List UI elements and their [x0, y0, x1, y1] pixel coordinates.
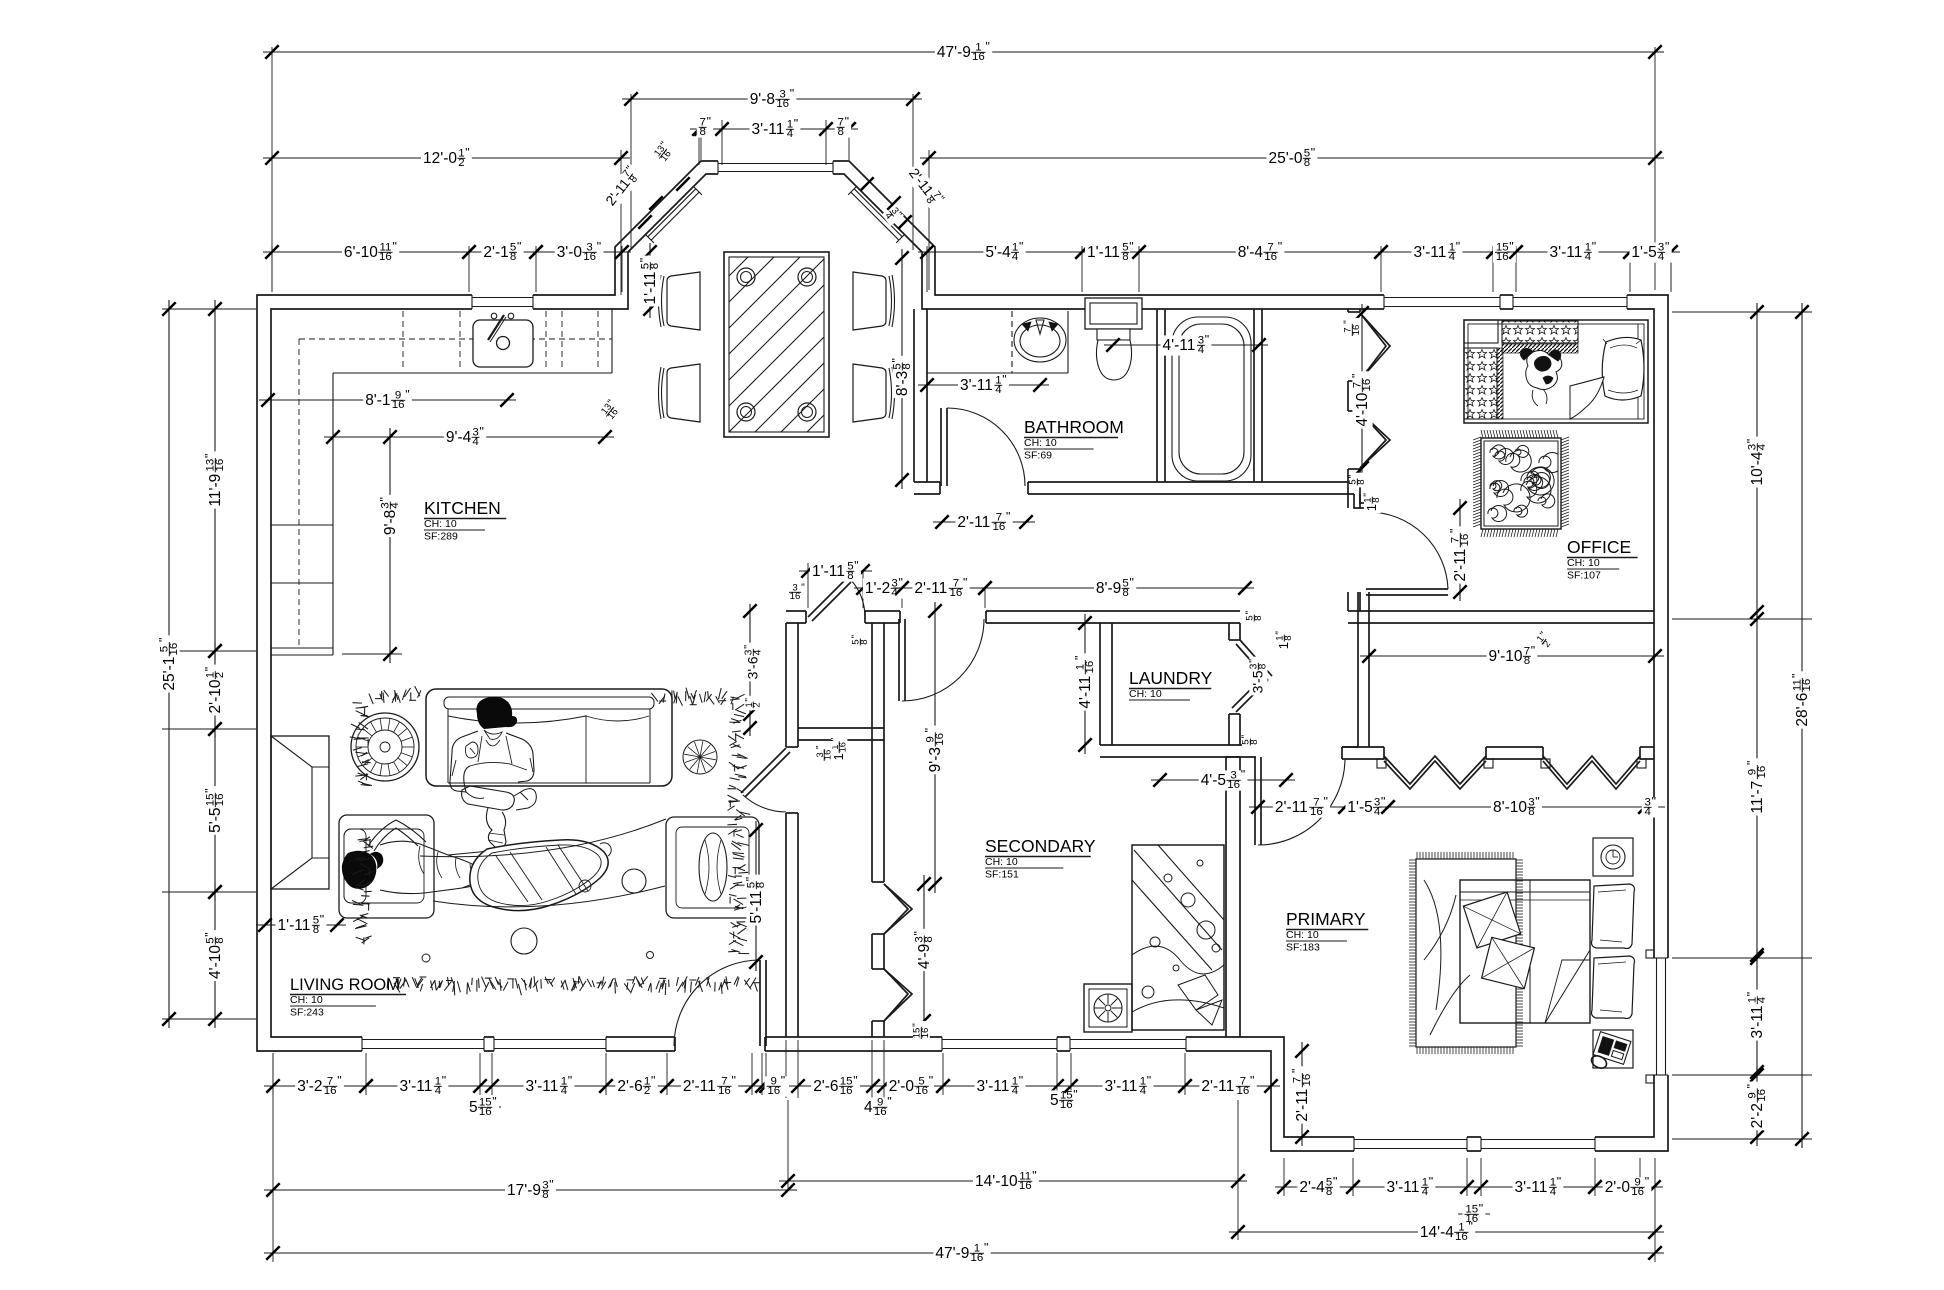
dimension 17'-9 3/8 bottom	[264, 1178, 797, 1202]
svg-text:CH: 10: CH: 10	[1024, 437, 1057, 449]
svg-text:": "	[1333, 1175, 1337, 1189]
svg-text:8: 8	[1524, 655, 1530, 667]
svg-text:16: 16	[479, 1106, 492, 1118]
window bay east diagonal	[848, 186, 905, 243]
exterior wall outer outline	[257, 161, 1668, 1151]
svg-text:": "	[1275, 631, 1286, 635]
svg-text:BATHROOM: BATHROOM	[1024, 417, 1124, 437]
svg-text:16: 16	[934, 733, 946, 746]
living room hall door swing arc	[743, 795, 786, 812]
svg-text:4: 4	[1550, 1186, 1557, 1198]
svg-text:8: 8	[838, 126, 844, 138]
svg-text:5: 5	[1050, 1092, 1059, 1109]
svg-text:": "	[1002, 372, 1006, 386]
dimension 25'-0 5/8	[920, 145, 1664, 169]
svg-text:8'-10: 8'-10	[1493, 799, 1527, 816]
svg-text:16: 16	[1084, 661, 1096, 674]
svg-text:CH: 10: CH: 10	[1129, 688, 1162, 700]
dimension 3'-11 1/4 top b	[1507, 239, 1639, 263]
svg-text:2: 2	[214, 672, 226, 678]
dimension 2'-11 7/16 primary door	[1249, 795, 1354, 819]
kitchen sink	[473, 320, 533, 367]
svg-text:": "	[337, 1074, 341, 1088]
window secondary south 2	[1070, 1036, 1186, 1052]
svg-text:4: 4	[472, 436, 479, 448]
dimension 2'-1 5/8	[460, 239, 545, 263]
svg-text:3'-11: 3'-11	[1414, 244, 1447, 261]
svg-text:": "	[1073, 1088, 1077, 1102]
svg-text:": "	[1290, 1069, 1304, 1073]
dimension 10'-4 3/4 east	[1744, 303, 1768, 621]
svg-text:4: 4	[1140, 1085, 1147, 1097]
dimension 9'-3 9/16 secondary	[923, 602, 947, 893]
dimension 2'-4 5/8 primary bottom	[1275, 1175, 1362, 1199]
small dim 7/16 closet	[1343, 318, 1362, 338]
dimension 5 15/16 bottom	[467, 1095, 501, 1119]
svg-text:2'-2: 2'-2	[1749, 1103, 1766, 1128]
svg-text:": "	[1032, 1169, 1036, 1183]
svg-text:16: 16	[915, 1085, 928, 1097]
svg-text:": "	[801, 583, 805, 594]
svg-text:": "	[651, 1074, 655, 1088]
dimension 7/8 bay right	[817, 115, 858, 139]
svg-text:": "	[1311, 145, 1315, 159]
svg-text:": "	[1531, 644, 1535, 658]
svg-text:9'-8: 9'-8	[750, 91, 775, 108]
svg-text:": "	[853, 1074, 857, 1088]
svg-text:8: 8	[1257, 663, 1268, 669]
svg-text:": "	[743, 645, 755, 649]
dimension 3'-11 1/4 bottom c	[934, 1074, 1066, 1098]
svg-text:": "	[157, 638, 171, 642]
small dim 1/2 office bottom	[1533, 629, 1557, 652]
svg-text:": "	[1479, 1202, 1483, 1216]
svg-text:1'-11: 1'-11	[1087, 244, 1120, 261]
dimension 1'-11 5/8 hall closet	[799, 559, 872, 583]
bay diagonal dim 13/16 sw	[598, 396, 625, 424]
svg-text:": "	[1790, 674, 1804, 678]
svg-text:1'-2: 1'-2	[865, 580, 890, 597]
svg-text:": "	[1509, 239, 1513, 253]
bathroom sink	[1014, 318, 1066, 362]
dimension 3'-11 1/4 bay	[692, 117, 858, 141]
dimension 2'-11 7/16 bath door	[933, 510, 1035, 534]
dimension 1'-5 3/4 primary	[1336, 795, 1397, 819]
svg-text:16: 16	[971, 1252, 984, 1264]
svg-text:OFFICE: OFFICE	[1567, 537, 1631, 557]
svg-text:14'-10: 14'-10	[975, 1173, 1018, 1190]
dimension 9/16 bottom	[753, 1074, 787, 1098]
wall bathroom bottom	[914, 481, 1354, 483]
hall closet door leaf	[808, 578, 847, 617]
dimension 3'-11 1/4 bottom d	[1062, 1074, 1194, 1098]
window living room south 1	[362, 1036, 484, 1052]
svg-text:": "	[1245, 611, 1256, 615]
small dim 5/8 closet	[1348, 473, 1367, 488]
dimension 2'-0 9/16 primary bottom	[1586, 1175, 1663, 1199]
svg-text:2: 2	[458, 157, 464, 169]
svg-text:": "	[790, 87, 794, 101]
svg-text:14'-4: 14'-4	[1420, 1224, 1454, 1241]
svg-text:16: 16	[993, 521, 1006, 533]
svg-text:": "	[1381, 795, 1385, 809]
svg-text:CH: 10: CH: 10	[424, 518, 457, 530]
primary door leaf	[1254, 757, 1256, 845]
living room kidney coffee table	[470, 840, 608, 911]
rug fringe right column	[731, 697, 739, 698]
dimension 9'-8 3/4 kitchen	[378, 428, 402, 663]
room label OFFICE	[1567, 537, 1638, 582]
svg-text:SF:183: SF:183	[1286, 942, 1320, 954]
primary closet jamb nibs	[1377, 759, 1386, 768]
dining chair bottom-right	[853, 364, 895, 422]
svg-text:8'-3: 8'-3	[894, 371, 911, 396]
dimension 3'-11 1/4 bathroom	[918, 372, 1049, 396]
svg-text:1'-11: 1'-11	[812, 563, 845, 580]
rug fringe left lower	[359, 840, 371, 842]
svg-text:1'-5: 1'-5	[1631, 244, 1656, 261]
svg-text:": "	[1448, 529, 1462, 533]
secondary closet bifold door lower	[884, 969, 912, 1021]
svg-text:16: 16	[379, 251, 392, 263]
svg-text:": "	[203, 932, 217, 936]
svg-text:": "	[854, 559, 858, 573]
dimension 3'-11 1/4 top a	[1372, 239, 1502, 263]
svg-text:16: 16	[1756, 1089, 1768, 1102]
svg-text:16: 16	[1361, 379, 1373, 392]
svg-text:": "	[1241, 735, 1252, 739]
svg-text:25'-1: 25'-1	[161, 657, 178, 691]
svg-text:47'-9: 47'-9	[937, 44, 971, 61]
svg-text:16: 16	[1237, 1085, 1250, 1097]
living room round side table (rattan)	[351, 713, 419, 781]
svg-text:1'-11: 1'-11	[642, 272, 659, 305]
svg-text:4: 4	[752, 649, 763, 655]
svg-text:16: 16	[972, 51, 985, 63]
svg-text:CH: 10: CH: 10	[985, 856, 1018, 868]
svg-text:": "	[732, 1074, 736, 1088]
kitchen counter shelf lines	[271, 524, 333, 526]
svg-text:": "	[984, 1241, 988, 1255]
window kitchen above sink	[472, 294, 533, 310]
svg-text:": "	[1250, 1074, 1254, 1088]
svg-text:4: 4	[1585, 251, 1592, 263]
svg-text:4: 4	[389, 502, 401, 509]
dimension 6'-10 11/16	[263, 239, 478, 263]
svg-text:": "	[1744, 439, 1758, 443]
svg-text:16: 16	[874, 1106, 887, 1118]
svg-text:16: 16	[1301, 1074, 1313, 1087]
dimension 5'-11 5/8 entry	[744, 821, 768, 971]
small dim 1 1/8 office door	[1363, 491, 1382, 513]
dimension 2'-10 1/2 west	[203, 642, 227, 738]
small dim 3/16 hall closet	[787, 584, 807, 601]
svg-text:4'-9: 4'-9	[916, 944, 933, 969]
svg-text:CH: 10: CH: 10	[1567, 557, 1600, 569]
dimension 11'-9 13/16 west	[202, 300, 226, 660]
svg-text:4: 4	[435, 1085, 442, 1097]
svg-text:": "	[1129, 239, 1133, 253]
dimension 47'-9 1/16 top	[263, 40, 1664, 64]
room label KITCHEN	[424, 498, 506, 543]
small dim 1 1/8 laundry	[1275, 629, 1294, 651]
primary door swing arc	[1258, 760, 1345, 845]
living room media console west wall	[271, 736, 329, 889]
room label BATHROOM	[1024, 417, 1124, 462]
wall kitchen-bathroom divider	[913, 309, 915, 482]
svg-text:12'-0: 12'-0	[423, 150, 457, 167]
svg-text:4: 4	[1012, 251, 1019, 263]
svg-text:": "	[1130, 576, 1134, 590]
svg-text:16: 16	[1801, 679, 1813, 692]
svg-text:16: 16	[767, 1085, 780, 1097]
svg-text:4'-10: 4'-10	[207, 945, 224, 979]
dimension 2'-6 1/2 bottom	[597, 1074, 676, 1098]
svg-text:": "	[1006, 510, 1010, 524]
svg-text:6'-10: 6'-10	[344, 244, 378, 261]
svg-text:": "	[549, 1178, 553, 1192]
dimension 11'-7 9/16 east	[1745, 610, 1769, 964]
svg-text:SF:107: SF:107	[1567, 570, 1601, 582]
svg-text:2'-4: 2'-4	[1299, 1179, 1325, 1196]
svg-text:16: 16	[1631, 1186, 1644, 1198]
svg-text:LAUNDRY: LAUNDRY	[1129, 668, 1213, 688]
svg-text:16: 16	[392, 399, 405, 411]
wall secondary-primary divider	[1225, 757, 1227, 1037]
secondary floor fan/heater unit	[1084, 984, 1132, 1032]
wall living-hall divider	[785, 623, 787, 1037]
svg-text:4: 4	[1012, 1085, 1019, 1097]
svg-text:8: 8	[1326, 1186, 1332, 1198]
svg-text:3'-11: 3'-11	[752, 121, 785, 138]
dining chair top-left	[659, 272, 701, 330]
svg-text:3'-2: 3'-2	[297, 1078, 322, 1095]
dimension 2'-6 15/16 bottom	[789, 1074, 882, 1098]
small dim 1 1/16 closet bottom	[830, 736, 848, 763]
dimension 3-6 3/4 closet west	[749, 604, 751, 736]
dimension 1'-11 5/8 bath	[1073, 239, 1148, 263]
front door leaf	[759, 960, 761, 1046]
small dim 3-5 3/8 laundry door	[1248, 657, 1269, 696]
dimension 2'-11 7/16 bottom e	[1176, 1074, 1280, 1098]
svg-text:SF:69: SF:69	[1024, 450, 1052, 462]
svg-text:4: 4	[561, 1085, 568, 1097]
svg-text:16: 16	[583, 251, 596, 263]
dimension 5'-5 15/16 west	[203, 720, 227, 901]
svg-text:8: 8	[755, 882, 767, 888]
dimension 14'-10 11/16 bottom	[779, 1169, 1247, 1193]
svg-text:8'-4: 8'-4	[1238, 244, 1264, 261]
svg-text:": "	[1019, 1074, 1023, 1088]
dimension 3'-11 1/4 bottom b	[483, 1074, 615, 1098]
dimension 3'-2 7/16 bottom	[264, 1074, 375, 1098]
svg-text:": "	[1019, 239, 1023, 253]
svg-text:16: 16	[1310, 806, 1323, 818]
svg-text:8: 8	[901, 363, 913, 369]
svg-text:4'-11: 4'-11	[1077, 676, 1094, 709]
rug fringe top-right	[663, 694, 665, 703]
kitchen counter front (top run)	[333, 372, 612, 374]
room label PRIMARY	[1286, 909, 1368, 954]
svg-text:11'-7: 11'-7	[1749, 781, 1766, 814]
front door swing arc	[674, 960, 760, 1046]
svg-text:17'-9: 17'-9	[507, 1182, 541, 1199]
laundry door leaf (angled)	[1240, 640, 1272, 676]
dimension 8'-4 7/16	[1130, 239, 1390, 263]
bay diagonal dim 2-11 7/8 east	[903, 162, 948, 211]
dining table	[724, 252, 829, 437]
window office north 2	[1513, 294, 1627, 310]
svg-text:16: 16	[776, 98, 789, 110]
svg-text:": "	[378, 497, 392, 501]
small dim 5/8 laundry top	[1245, 609, 1264, 624]
svg-text:2'-10: 2'-10	[207, 679, 224, 713]
svg-text:16: 16	[950, 587, 963, 599]
primary east window jambs	[1646, 950, 1654, 958]
wall closet bottom (hall)	[798, 727, 884, 729]
dimension 2'-11 7/16 bottom	[658, 1074, 761, 1098]
svg-text:3'-6: 3'-6	[745, 656, 761, 679]
svg-text:16: 16	[840, 1085, 853, 1097]
svg-text:3'-5: 3'-5	[1250, 670, 1266, 693]
svg-text:4: 4	[1645, 806, 1652, 818]
svg-text:": "	[393, 239, 397, 253]
svg-text:": "	[203, 788, 217, 792]
dimension 9'-4 3/4 kitchen	[324, 424, 614, 448]
svg-text:4: 4	[1756, 443, 1768, 450]
office door swing arc	[1368, 512, 1448, 589]
room label SECONDARY	[985, 836, 1096, 881]
svg-text:3'-11: 3'-11	[1105, 1078, 1138, 1095]
primary nightstand south with telephone	[1593, 1030, 1633, 1068]
dimension 1'-2 3/4 hall	[854, 576, 911, 600]
bay diagonal ticks west	[638, 215, 651, 228]
svg-text:": "	[480, 424, 484, 438]
svg-text:": "	[1349, 374, 1363, 378]
window primary south 2	[1481, 1136, 1595, 1152]
svg-text:": "	[442, 1074, 446, 1088]
dimension 4'-11 3/4 bathtub	[1104, 332, 1268, 356]
svg-text:": "	[1429, 1175, 1433, 1189]
svg-text:47'-9: 47'-9	[935, 1245, 969, 1262]
svg-text:2'-11: 2'-11	[1275, 799, 1308, 816]
svg-text:8: 8	[649, 263, 661, 269]
svg-text:3'-0: 3'-0	[557, 244, 583, 261]
wall closet-office divider	[1347, 309, 1349, 508]
dimension 15/16 primary bottom	[1458, 1202, 1490, 1226]
bay diagonal dim 2-11 7/8 west	[599, 162, 644, 211]
room label LAUNDRY	[1129, 668, 1213, 700]
svg-text:": "	[1147, 1074, 1151, 1088]
svg-text:4: 4	[1449, 251, 1456, 263]
svg-text:": "	[465, 145, 469, 159]
bathtub	[1172, 317, 1251, 481]
primary nightstand north with clock	[1593, 838, 1633, 876]
svg-text:5'-11: 5'-11	[748, 891, 765, 924]
svg-text:8: 8	[847, 570, 853, 582]
svg-text:4: 4	[1198, 344, 1205, 356]
svg-text:3'-11: 3'-11	[400, 1078, 433, 1095]
svg-text:1'-11: 1'-11	[278, 917, 311, 934]
dimension 15/16 top	[1484, 239, 1525, 263]
svg-text:3'-11: 3'-11	[1515, 1179, 1548, 1196]
svg-text:9'-3: 9'-3	[927, 747, 944, 772]
svg-text:": "	[912, 931, 926, 935]
svg-text:16: 16	[1060, 1099, 1073, 1111]
svg-text:": "	[744, 877, 758, 881]
svg-text:1: 1	[832, 753, 846, 760]
svg-text:4'-11: 4'-11	[1163, 337, 1196, 354]
bay diagonal dim 13/16 west	[651, 138, 678, 166]
dimension 3'-11 1/4 primary bottom a	[1344, 1175, 1476, 1199]
dimension 1'-11 5/8 dining	[637, 243, 661, 318]
bay diagonal dim 3/4 east	[881, 203, 905, 226]
secondary door leaf	[898, 619, 900, 701]
svg-text:": "	[912, 1023, 923, 1027]
bathroom vanity counter	[927, 372, 1068, 374]
svg-text:": "	[923, 728, 937, 732]
bathroom door leaf	[940, 408, 942, 486]
svg-text:": "	[1592, 239, 1596, 253]
svg-text:3'-11: 3'-11	[1550, 244, 1583, 261]
svg-text:": "	[1348, 475, 1359, 479]
svg-text:": "	[1469, 1220, 1473, 1234]
dimension 3/4 primary	[1636, 795, 1665, 819]
wall primary north	[1342, 746, 1384, 748]
wall hall top (secondary/laundry north)	[786, 610, 1240, 612]
svg-text:": "	[1745, 992, 1759, 996]
dimension 4'-5 3/16 laundry	[1151, 768, 1295, 792]
window bay west diagonal	[645, 186, 702, 243]
svg-text:3'-11: 3'-11	[1387, 1179, 1420, 1196]
wall laundry right upper stub	[1228, 623, 1230, 640]
living room plant beside sofa	[683, 740, 717, 774]
svg-text:SF:151: SF:151	[985, 869, 1019, 881]
living room armchair west	[339, 815, 434, 918]
rug fringe bottom row	[396, 979, 399, 988]
secondary closet bifold door upper	[884, 884, 912, 934]
svg-text:16: 16	[168, 643, 180, 656]
dimension 1'-5 3/4 top	[1621, 239, 1680, 263]
svg-text:5'-4: 5'-4	[985, 244, 1011, 261]
small dim 5/8 laundry bottom	[1241, 733, 1260, 748]
svg-text:16: 16	[1264, 251, 1277, 263]
svg-text:": "	[320, 913, 324, 927]
dimension 7/8 bay left	[690, 115, 731, 139]
window office north 1	[1384, 294, 1500, 310]
dimension 5 15/16 bottom b	[1048, 1088, 1080, 1112]
svg-text:": "	[845, 115, 849, 129]
svg-text:16: 16	[1227, 779, 1240, 791]
office rug with fringe and swirl pattern	[1481, 438, 1561, 529]
svg-text:2'-11: 2'-11	[914, 580, 947, 597]
dimension 4 9/16 bottom	[862, 1095, 894, 1119]
svg-text:8: 8	[923, 936, 935, 942]
dimension 3'-11 1/4 bottom a	[357, 1074, 489, 1098]
svg-text:": "	[1248, 659, 1260, 663]
wall hall step nib	[1354, 494, 1378, 508]
dimension 2'-11 7/16 primary west	[1290, 1042, 1314, 1146]
dimension 9'-10 7/8 primary top	[1360, 644, 1664, 668]
svg-text:8: 8	[1528, 806, 1534, 818]
svg-text:": "	[1278, 239, 1282, 253]
small dim 5/8 secondary top	[851, 633, 870, 648]
svg-text:2: 2	[644, 1085, 650, 1097]
kitchen upper cabinets dashed	[298, 339, 300, 648]
svg-text:9'-8: 9'-8	[382, 510, 399, 535]
dimension 2'-2 9/16 east	[1745, 1066, 1769, 1146]
living room sofa	[426, 689, 672, 786]
